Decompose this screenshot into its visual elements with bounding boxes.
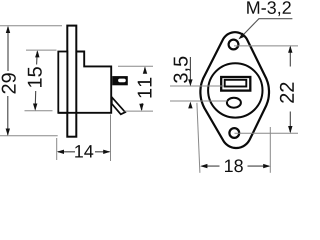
dim 29 line bbox=[7, 27, 9, 135]
dim 22 label bbox=[280, 83, 294, 103]
M-3,2 label bbox=[247, 1, 291, 16]
dim 15 arrow up bbox=[35, 50, 39, 57]
dim 14 arrow right bbox=[103, 150, 110, 154]
jack window outer rectangle bbox=[221, 77, 250, 91]
dim 3,5 arrow down bbox=[188, 79, 192, 86]
dim 29 extension line bottom bbox=[0, 135, 58, 137]
dim 18 extension line right bbox=[269, 127, 271, 173]
connector pin bbox=[112, 76, 128, 85]
dim 11 extension line bottom bbox=[125, 110, 154, 112]
dim 29 arrow up bbox=[6, 26, 10, 33]
dim 22 arrow up bbox=[288, 46, 292, 53]
dim 14 extension line right bbox=[110, 115, 112, 162]
dim 18 extension line left bbox=[197, 103, 200, 173]
side view flange plate bbox=[67, 26, 76, 137]
dim 14 arrow left bbox=[57, 150, 64, 154]
side view body rear block bbox=[58, 52, 67, 113]
solder lug bbox=[112, 97, 125, 114]
dim 22 extension line top bbox=[234, 45, 298, 47]
dim 11 extension line top bbox=[118, 65, 153, 67]
dim 15 extension line bottom bbox=[25, 110, 53, 112]
dim 11 label bbox=[138, 78, 152, 98]
dim 18 label bbox=[225, 159, 243, 172]
dim 3,5 arrow up bbox=[188, 102, 192, 109]
dim 15 extension line top bbox=[26, 49, 57, 51]
dim 18 line bbox=[202, 165, 270, 167]
dim 3,5 label bbox=[174, 57, 191, 83]
M-3,2 leader line bbox=[241, 19, 293, 38]
dim 18 arrow right bbox=[263, 164, 270, 168]
dim 14 extension line left bbox=[56, 138, 58, 160]
dim 14 label bbox=[75, 145, 93, 157]
jack window inner rectangle bbox=[225, 80, 247, 87]
dim 22 arrow down bbox=[288, 126, 292, 133]
dim 22 line bbox=[289, 47, 291, 132]
dim 15 label bbox=[28, 67, 42, 87]
dim 11 arrow up bbox=[143, 67, 147, 74]
side view body front housing bbox=[58, 52, 111, 113]
front view center boss circle bbox=[208, 63, 262, 117]
dim 22 extension line bottom bbox=[235, 132, 299, 134]
dim 29 extension line top bbox=[0, 25, 62, 27]
pin slot bbox=[118, 79, 126, 83]
dim 15 line bbox=[35, 52, 37, 110]
dim 29 label bbox=[2, 73, 16, 93]
dim 11 line bbox=[142, 68, 145, 111]
front view flange outline bbox=[200, 32, 269, 148]
dim 11 arrow down bbox=[139, 104, 143, 111]
oval opening bbox=[227, 98, 241, 108]
dim 3,5 line upper bbox=[189, 57, 191, 81]
dim 15 arrow down bbox=[33, 104, 37, 111]
dim 18 arrow left bbox=[200, 164, 207, 168]
M-3,2 leader arrowhead bbox=[239, 33, 246, 40]
dim 14 line bbox=[58, 151, 110, 153]
dim 3,5 extension line bottom bbox=[170, 100, 227, 102]
dim 29 arrow down bbox=[6, 129, 10, 136]
dim 3,5 extension line top bbox=[170, 85, 224, 87]
top mounting hole bbox=[229, 40, 239, 50]
bottom mounting hole bbox=[229, 128, 239, 138]
